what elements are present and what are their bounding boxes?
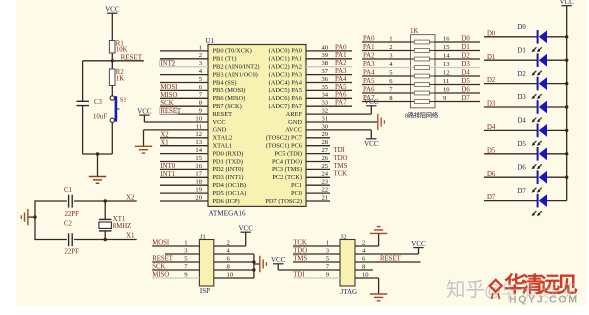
svg-text:11: 11 bbox=[443, 78, 449, 85]
diode D3 bbox=[518, 94, 548, 122]
resistor element 3 bbox=[411, 58, 415, 60]
svg-text:1: 1 bbox=[199, 44, 202, 51]
J2 pin 2 wire bbox=[355, 245, 379, 247]
U1 pin 17 wire bbox=[160, 176, 208, 178]
svg-text:X2: X2 bbox=[126, 194, 135, 202]
svg-text:28: 28 bbox=[322, 139, 329, 146]
svg-text:D3: D3 bbox=[462, 61, 471, 68]
svg-text:22PF: 22PF bbox=[65, 249, 80, 256]
svg-text:13: 13 bbox=[195, 139, 202, 146]
svg-text:PD1 (TXD): PD1 (TXD) bbox=[213, 158, 243, 165]
svg-text:PA2: PA2 bbox=[363, 52, 375, 59]
U1 pin 27 wire bbox=[306, 153, 330, 155]
svg-text:PA7: PA7 bbox=[335, 100, 347, 107]
U1 pin 14 wire bbox=[160, 153, 208, 155]
J2 pin 6 wire bbox=[355, 261, 421, 263]
svg-text:TMS: TMS bbox=[334, 163, 348, 170]
wire D3 net to LED bbox=[484, 106, 537, 108]
U1 pin 31 wire (GND) bbox=[306, 121, 378, 123]
wire bbox=[111, 13, 113, 40]
svg-text:14: 14 bbox=[195, 147, 202, 154]
J1 pin 8 wire bbox=[214, 269, 254, 271]
node (bus junction D5) bbox=[565, 152, 568, 155]
power VCC (LED supply) bbox=[559, 0, 574, 6]
svg-text:PD7 (TOSC2): PD7 (TOSC2) bbox=[265, 198, 302, 205]
U1 pin 25 wire bbox=[306, 168, 330, 170]
J1 pin 4 wire bbox=[214, 253, 254, 255]
capacitor C1 bbox=[64, 187, 79, 218]
svg-text:PA6: PA6 bbox=[335, 92, 347, 99]
svg-text:(ADC4) PA4: (ADC4) PA4 bbox=[269, 79, 303, 86]
svg-text:PD5 (OC1A): PD5 (OC1A) bbox=[213, 190, 247, 197]
svg-text:D6: D6 bbox=[487, 171, 496, 178]
resistor element 7 bbox=[411, 92, 415, 94]
wire D6 net to LED bbox=[484, 176, 537, 178]
U1 pin 11 wire (GND) bbox=[144, 129, 209, 131]
capacitor C2 bbox=[64, 220, 79, 255]
wire bbox=[111, 123, 113, 155]
svg-text:XTAL2: XTAL2 bbox=[213, 135, 233, 142]
U1 pin 35 wire bbox=[306, 89, 352, 91]
node (crystal gnd tap) bbox=[33, 215, 36, 218]
svg-text:PB2 (AIN0/INT2): PB2 (AIN0/INT2) bbox=[213, 64, 260, 71]
wire bbox=[35, 200, 67, 202]
wire network pin 12 to D4 bbox=[435, 75, 480, 77]
wire bbox=[111, 86, 113, 96]
svg-text:1: 1 bbox=[326, 239, 329, 246]
U1 pin 4 wire bbox=[160, 74, 208, 76]
J2 pin 10 wire bbox=[355, 277, 379, 279]
svg-text:PB4 (SS): PB4 (SS) bbox=[213, 79, 237, 86]
svg-text:INT1: INT1 bbox=[160, 171, 175, 178]
U1 pin 30 wire (AVCC) bbox=[306, 129, 371, 131]
U1 pin 16 wire bbox=[160, 168, 208, 170]
svg-text:(ADC6) PA6: (ADC6) PA6 bbox=[269, 95, 302, 102]
wire D0 net to LED bbox=[484, 36, 537, 38]
node X1 bbox=[104, 232, 136, 242]
ground (U1 pin 11) bbox=[135, 130, 152, 153]
svg-text:D6: D6 bbox=[462, 86, 471, 93]
resistor element 8 bbox=[411, 101, 415, 103]
svg-text:PA0: PA0 bbox=[335, 44, 347, 51]
node (bus junction D1) bbox=[565, 59, 568, 62]
svg-text:D2: D2 bbox=[518, 71, 527, 78]
switch S1 bbox=[110, 96, 126, 123]
svg-text:PC1: PC1 bbox=[291, 182, 302, 189]
wire D5 net to LED bbox=[484, 153, 537, 155]
wire bbox=[111, 61, 113, 69]
svg-text:10: 10 bbox=[443, 86, 450, 93]
svg-text:知乎: 知乎 bbox=[446, 279, 485, 301]
U1 pin 15 wire bbox=[160, 161, 208, 163]
svg-text:PD0 (RXD): PD0 (RXD) bbox=[213, 150, 244, 157]
svg-text:C3: C3 bbox=[94, 99, 103, 106]
svg-text:(ADC7) PA7: (ADC7) PA7 bbox=[269, 103, 303, 110]
wire network pin 15 to D1 bbox=[435, 50, 480, 52]
svg-text:AREF: AREF bbox=[286, 111, 303, 118]
diode D6 bbox=[518, 164, 548, 192]
power VCC (J2 pin 4) bbox=[411, 240, 426, 254]
svg-text:D5: D5 bbox=[487, 147, 496, 154]
wire LED D5 to bus bbox=[547, 153, 567, 155]
svg-text:15: 15 bbox=[443, 44, 450, 51]
svg-text:D5: D5 bbox=[518, 141, 527, 148]
power VCC (J1 pin 2) bbox=[238, 224, 253, 246]
svg-text:AVCC: AVCC bbox=[285, 127, 302, 134]
wire D7 net to LED bbox=[484, 200, 537, 202]
U1 pin 2 wire bbox=[160, 58, 208, 60]
U1 pin 8 wire bbox=[160, 105, 208, 107]
svg-text:40: 40 bbox=[322, 44, 329, 51]
U1 pin names (left column) bbox=[213, 48, 260, 205]
U1 pin 23 wire bbox=[306, 184, 330, 186]
svg-text:VCC: VCC bbox=[105, 5, 120, 13]
svg-text:C2: C2 bbox=[64, 220, 73, 227]
node INT2 bbox=[160, 60, 174, 66]
svg-text:ATMEGA16: ATMEGA16 bbox=[209, 210, 247, 218]
svg-text:D1: D1 bbox=[462, 44, 470, 51]
U1 pin 33 wire bbox=[306, 105, 352, 107]
svg-text:D6: D6 bbox=[518, 164, 527, 171]
svg-text:C1: C1 bbox=[64, 187, 72, 194]
U1 pin 29 wire bbox=[306, 137, 330, 139]
resistor R2 bbox=[109, 69, 124, 86]
J1 pin 5 wire bbox=[152, 261, 199, 263]
svg-text:PD3 (INT1): PD3 (INT1) bbox=[213, 174, 244, 181]
svg-text:PC5 (TDI): PC5 (TDI) bbox=[274, 150, 302, 157]
svg-text:25: 25 bbox=[322, 163, 329, 170]
svg-text:D0: D0 bbox=[487, 30, 496, 37]
svg-text:MISO: MISO bbox=[152, 272, 169, 279]
svg-text:PA1: PA1 bbox=[363, 44, 374, 51]
svg-text:23: 23 bbox=[322, 179, 329, 186]
resistor element 5 bbox=[411, 75, 415, 77]
node (J1 bus junction) bbox=[252, 260, 255, 263]
node X2 bbox=[104, 194, 136, 203]
svg-text:8MHZ: 8MHZ bbox=[113, 223, 132, 230]
wire PA1 to network pin 2 bbox=[362, 50, 411, 52]
wire PA2 to network pin 3 bbox=[362, 58, 411, 60]
capacitor C3 bbox=[77, 99, 108, 120]
svg-text:VCC: VCC bbox=[559, 0, 574, 6]
node (J1 bus junction) bbox=[252, 268, 255, 271]
svg-text:VCC: VCC bbox=[238, 224, 253, 232]
resistor element 2 bbox=[411, 50, 415, 52]
U1 pin 40 wire bbox=[306, 50, 352, 52]
svg-text:D1: D1 bbox=[487, 54, 495, 61]
svg-text:D2: D2 bbox=[487, 77, 496, 84]
wire LED D2 to bus bbox=[547, 83, 567, 85]
svg-text:16: 16 bbox=[195, 163, 202, 170]
svg-text:16: 16 bbox=[443, 35, 450, 42]
ground (U1 pin 31) bbox=[378, 114, 385, 130]
wire network pin 14 to D2 bbox=[435, 58, 480, 60]
wire network pin 10 to D6 bbox=[435, 92, 480, 94]
U1 pin 5 wire bbox=[160, 82, 208, 84]
node (reset gnd junction) bbox=[96, 152, 99, 155]
svg-text:VCC: VCC bbox=[411, 240, 426, 248]
svg-text:XTAL1: XTAL1 bbox=[213, 143, 233, 150]
U1 pin 13 wire bbox=[160, 145, 208, 147]
svg-text:PB3 (AIN1/OC0): PB3 (AIN1/OC0) bbox=[213, 71, 258, 78]
svg-text:24: 24 bbox=[322, 171, 329, 178]
svg-text:INT2: INT2 bbox=[160, 60, 175, 67]
svg-text:(ADC2) PA2: (ADC2) PA2 bbox=[269, 64, 302, 71]
svg-text:TCK: TCK bbox=[334, 171, 348, 178]
node (bus junction D0) bbox=[565, 35, 568, 38]
svg-text:8路排阻网络: 8路排阻网络 bbox=[405, 112, 438, 120]
svg-text:PA0: PA0 bbox=[363, 35, 375, 42]
U1 pin 36 wire bbox=[306, 82, 352, 84]
resistor network RN1 body bbox=[410, 28, 435, 108]
power VCC (top of reset divider) bbox=[105, 5, 120, 13]
U1 pin 7 wire bbox=[160, 97, 208, 99]
power VCC (to J2 pin 7) bbox=[271, 256, 286, 270]
wire PA0 to network pin 1 bbox=[362, 41, 411, 43]
svg-text:D3: D3 bbox=[487, 101, 496, 108]
U1 pin names (right column) bbox=[265, 48, 302, 205]
resistor R1 bbox=[109, 40, 127, 53]
wire bbox=[104, 201, 106, 219]
svg-text:PA6: PA6 bbox=[363, 86, 375, 93]
wire LED D0 to bus bbox=[547, 36, 567, 38]
svg-text:21: 21 bbox=[322, 194, 329, 201]
svg-text:22PF: 22PF bbox=[65, 211, 80, 218]
svg-text:38: 38 bbox=[322, 60, 329, 67]
wire bbox=[74, 200, 137, 202]
U1 pin 19 wire bbox=[160, 192, 208, 194]
svg-text:PA5: PA5 bbox=[335, 84, 347, 91]
wire PA5 to network pin 6 bbox=[362, 84, 411, 86]
svg-text:RESET: RESET bbox=[152, 256, 174, 263]
svg-text:J1: J1 bbox=[200, 233, 206, 240]
wire bbox=[111, 53, 113, 61]
svg-text:TCK: TCK bbox=[293, 240, 307, 247]
svg-text:11: 11 bbox=[196, 123, 202, 130]
svg-text:PC3 (TMS): PC3 (TMS) bbox=[272, 166, 302, 173]
svg-text:D7: D7 bbox=[518, 188, 527, 195]
logo knot (huaqingyuanjian) bbox=[490, 280, 502, 299]
crystal XT1 bbox=[99, 216, 131, 231]
svg-text:ISP: ISP bbox=[200, 287, 210, 295]
svg-text:PA4: PA4 bbox=[363, 69, 375, 76]
wire PA7 to network pin 8 bbox=[362, 101, 411, 103]
svg-text:VCC: VCC bbox=[364, 140, 379, 148]
svg-text:X1: X1 bbox=[160, 139, 168, 146]
svg-text:15: 15 bbox=[195, 155, 202, 162]
svg-text:27: 27 bbox=[322, 147, 329, 154]
U1 pin 24 wire bbox=[306, 176, 330, 178]
diode D0 bbox=[518, 24, 548, 52]
svg-text:TMS: TMS bbox=[293, 256, 307, 263]
diode D5 bbox=[518, 141, 548, 169]
U1 pin 9 wire bbox=[160, 113, 208, 115]
svg-text:D7: D7 bbox=[462, 95, 471, 102]
node (bus junction D4) bbox=[565, 129, 568, 132]
svg-text:37: 37 bbox=[322, 68, 329, 75]
svg-text:2: 2 bbox=[227, 239, 230, 246]
U1 pin 21 wire bbox=[306, 200, 330, 202]
ground (J1) bbox=[254, 256, 267, 272]
wire network pin 16 to D0 bbox=[435, 41, 480, 43]
svg-text:MOSI: MOSI bbox=[152, 240, 170, 247]
U1 pin 39 wire bbox=[306, 58, 352, 60]
diode D1 bbox=[518, 47, 548, 75]
svg-text:1K: 1K bbox=[410, 28, 418, 35]
wire D2 net to LED bbox=[484, 83, 537, 85]
svg-text:GND: GND bbox=[213, 127, 227, 134]
power VCC (U1 pin 10) bbox=[137, 107, 152, 122]
svg-text:12: 12 bbox=[195, 131, 202, 138]
svg-text:(ADC0) PA0: (ADC0) PA0 bbox=[269, 48, 302, 55]
U1 pin 26 wire bbox=[306, 161, 330, 163]
svg-text:PA5: PA5 bbox=[363, 78, 375, 85]
U1 pin 28 wire bbox=[306, 145, 330, 147]
svg-text:1: 1 bbox=[184, 239, 187, 246]
J2 pin 4 wire bbox=[355, 253, 419, 255]
U1 pin 32 wire (AREF) bbox=[306, 113, 371, 115]
svg-text:2: 2 bbox=[362, 239, 365, 246]
svg-text:RESET: RESET bbox=[380, 256, 402, 263]
svg-text:39: 39 bbox=[322, 52, 329, 59]
svg-text:(TOSC1) PC6: (TOSC1) PC6 bbox=[266, 143, 302, 150]
resistor element 6 bbox=[411, 84, 415, 86]
power VCC (AREF pin 32) bbox=[364, 98, 379, 114]
svg-text:J2: J2 bbox=[341, 233, 347, 240]
J1 pin 1 wire bbox=[152, 245, 199, 247]
node (bus junction D2) bbox=[565, 82, 568, 85]
svg-text:X2: X2 bbox=[160, 132, 169, 139]
node RESET bbox=[160, 108, 178, 114]
svg-text:30: 30 bbox=[322, 123, 329, 130]
wire LED D3 to bus bbox=[547, 106, 567, 108]
svg-text:D1: D1 bbox=[518, 47, 526, 54]
svg-text:1: 1 bbox=[389, 35, 392, 42]
svg-text:D4: D4 bbox=[487, 124, 496, 131]
svg-text:12: 12 bbox=[443, 69, 450, 76]
wire D4 net to LED bbox=[484, 129, 537, 131]
wire PA4 to network pin 5 bbox=[362, 75, 411, 77]
diode D2 bbox=[518, 71, 548, 99]
svg-text:(TOSC2) PC7: (TOSC2) PC7 bbox=[266, 135, 303, 142]
wire bbox=[97, 154, 99, 177]
svg-text:(ADC1) PA1: (ADC1) PA1 bbox=[269, 56, 302, 63]
svg-text:10uF: 10uF bbox=[93, 114, 107, 121]
svg-text:36: 36 bbox=[322, 76, 329, 83]
svg-text:D4: D4 bbox=[518, 118, 527, 125]
svg-text:X1: X1 bbox=[126, 232, 135, 240]
wire D1 net to LED bbox=[484, 59, 537, 61]
svg-text:14: 14 bbox=[443, 52, 450, 59]
ground (J2 pin 10) bbox=[370, 278, 387, 301]
svg-text:20: 20 bbox=[195, 194, 202, 201]
wire LED D7 to bus bbox=[547, 200, 567, 202]
svg-text:PB0 (T0/XCK): PB0 (T0/XCK) bbox=[213, 48, 252, 55]
J1 pin 3 wire bbox=[165, 253, 199, 255]
diode D7 bbox=[518, 188, 548, 216]
svg-text:INT0: INT0 bbox=[160, 163, 175, 170]
svg-text:PA3: PA3 bbox=[363, 61, 375, 68]
svg-text:MISO: MISO bbox=[160, 92, 177, 99]
svg-text:PA4: PA4 bbox=[335, 76, 347, 83]
svg-text:D0: D0 bbox=[462, 35, 471, 42]
U1 pin 12 wire bbox=[160, 137, 208, 139]
J2 pin 3 wire bbox=[293, 253, 340, 255]
J2 pin 9 wire bbox=[293, 277, 340, 279]
ground (crystal section) bbox=[21, 209, 28, 225]
svg-text:13: 13 bbox=[443, 61, 450, 68]
svg-text:D4: D4 bbox=[462, 69, 471, 76]
svg-text:(ADC5) PA5: (ADC5) PA5 bbox=[269, 87, 302, 94]
svg-text:PC2 (TCK): PC2 (TCK) bbox=[272, 174, 302, 181]
wire bbox=[74, 239, 137, 241]
svg-text:D5: D5 bbox=[462, 78, 471, 85]
U1 pin 20 wire bbox=[160, 200, 208, 202]
svg-text:VCC: VCC bbox=[213, 119, 226, 126]
wire bbox=[83, 153, 113, 155]
J1 pin 9 wire bbox=[152, 277, 199, 279]
node (bus junction D6) bbox=[565, 176, 568, 179]
svg-text:29: 29 bbox=[322, 131, 329, 138]
svg-text:U1: U1 bbox=[206, 37, 215, 45]
node RESET bbox=[111, 53, 144, 62]
wire network pin 9 to D7 bbox=[435, 101, 480, 103]
J1 pin 7 wire bbox=[152, 269, 199, 271]
svg-text:PA3: PA3 bbox=[335, 68, 347, 75]
svg-text:18: 18 bbox=[195, 179, 202, 186]
wire bbox=[82, 106, 84, 154]
svg-text:PC4 (TDO): PC4 (TDO) bbox=[272, 158, 302, 165]
wire PA6 to network pin 7 bbox=[362, 92, 411, 94]
svg-text:19: 19 bbox=[195, 187, 202, 194]
J1 pin 6 wire bbox=[214, 261, 254, 263]
svg-text:D7: D7 bbox=[487, 194, 496, 201]
svg-text:(ADC3) PA3: (ADC3) PA3 bbox=[269, 71, 302, 78]
connector J2 body bbox=[340, 233, 357, 296]
svg-text:TDO: TDO bbox=[293, 248, 307, 255]
svg-text:34: 34 bbox=[322, 92, 329, 99]
U1 pin 18 wire bbox=[160, 184, 208, 186]
wire bbox=[82, 61, 84, 102]
wire bbox=[35, 239, 67, 241]
svg-text:10: 10 bbox=[195, 115, 202, 122]
svg-text:SCK: SCK bbox=[152, 264, 165, 271]
svg-text:RESET: RESET bbox=[160, 108, 182, 115]
svg-text:PD2 (INT0): PD2 (INT0) bbox=[213, 166, 244, 173]
J2 pin 8 wire bbox=[355, 269, 373, 271]
wire PA3 to network pin 4 bbox=[362, 67, 411, 69]
wire (J1 gnd bus) bbox=[253, 254, 255, 278]
ground (reset section) bbox=[89, 177, 106, 184]
wire network pin 11 to D5 bbox=[435, 84, 480, 86]
J2 pin 1 wire bbox=[293, 245, 340, 247]
resistor element 1 bbox=[411, 41, 415, 43]
op-amp U1 ATMEGA16 body bbox=[206, 37, 307, 218]
wire LED D4 to bus bbox=[547, 129, 567, 131]
svg-text:RESET: RESET bbox=[121, 53, 143, 61]
node (bus junction D3) bbox=[565, 105, 568, 108]
svg-text:JTAG: JTAG bbox=[341, 288, 358, 296]
svg-text:31: 31 bbox=[322, 115, 329, 122]
U1 pin 22 wire bbox=[306, 192, 330, 194]
svg-text:33: 33 bbox=[322, 100, 329, 107]
U1 pin 3 wire bbox=[160, 66, 208, 68]
U1 pin 38 wire bbox=[306, 66, 352, 68]
svg-text:PD4 (OC1B): PD4 (OC1B) bbox=[213, 182, 247, 189]
svg-text:PB7 (SCK): PB7 (SCK) bbox=[213, 103, 242, 110]
J1 pin 10 wire bbox=[214, 277, 254, 279]
U1 pin 6 wire bbox=[160, 89, 208, 91]
